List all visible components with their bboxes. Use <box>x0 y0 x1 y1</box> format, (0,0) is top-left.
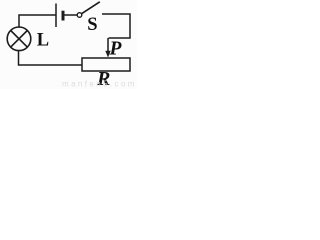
svg-text:L: L <box>37 30 49 50</box>
battery short thick plate <box>62 11 65 21</box>
wire lamp top to battery <box>19 15 56 28</box>
wire rheostat left to lamp bottom <box>19 51 83 66</box>
wiper arrowhead P <box>105 51 110 58</box>
wire battery to switch <box>65 14 78 16</box>
rheostat R body <box>82 58 130 71</box>
battery long plate <box>55 4 57 28</box>
svg-text:S: S <box>87 15 97 35</box>
wiper arrow shaft <box>107 38 109 53</box>
switch S blade (open) <box>82 2 100 14</box>
lamp L (circle with X) <box>7 27 31 51</box>
svg-text:P: P <box>109 39 123 60</box>
switch S pivot <box>77 13 82 18</box>
svg-text:manfen5.com: manfen5.com <box>62 80 137 89</box>
wire switch contact to right corner <box>102 14 130 38</box>
